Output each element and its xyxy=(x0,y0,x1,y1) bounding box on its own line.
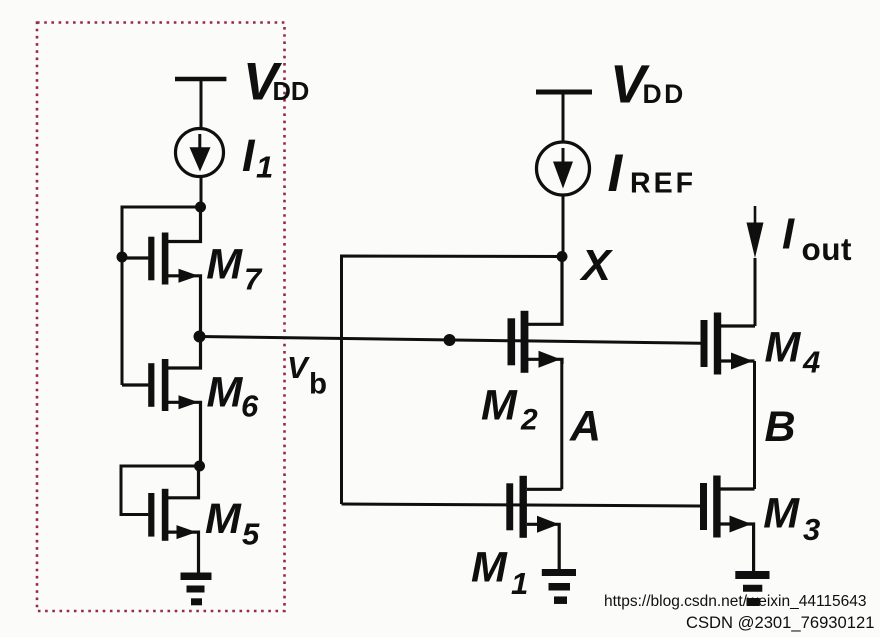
node X xyxy=(557,251,568,262)
label I1 xyxy=(242,130,273,185)
transistor M2 xyxy=(508,257,563,373)
wire Vb bias line to M2/M4 gates xyxy=(200,337,702,344)
svg-text:B: B xyxy=(765,403,796,451)
label IREF xyxy=(608,144,697,203)
VDD supply bar (reference branch) xyxy=(536,90,592,95)
label Vb xyxy=(287,350,327,401)
svg-text:out: out xyxy=(802,231,852,267)
node: I1 / M7 drain / gate junction xyxy=(195,202,206,213)
wire gate loop M7 xyxy=(122,207,201,257)
svg-text:REF: REF xyxy=(630,168,696,200)
ground (bias branch) xyxy=(181,576,212,602)
svg-text:M: M xyxy=(765,324,802,372)
svg-text:5: 5 xyxy=(242,517,260,552)
svg-text:I: I xyxy=(608,144,624,203)
svg-text:CSDN @2301_76930121: CSDN @2301_76930121 xyxy=(686,613,874,632)
svg-text:DD: DD xyxy=(643,79,686,109)
svg-text:https://blog.csdn.net/weixin_4: https://blog.csdn.net/weixin_44115643 xyxy=(604,593,867,610)
svg-text:1: 1 xyxy=(256,150,273,185)
svg-text:V: V xyxy=(287,350,310,385)
svg-text:b: b xyxy=(309,368,327,401)
node: M6 source / M5 drain xyxy=(194,461,205,472)
ground (M3) xyxy=(735,575,769,602)
label M7 xyxy=(206,241,263,297)
wire gate line M1/M3 xyxy=(342,504,701,506)
transistor M3 xyxy=(700,476,755,572)
node: M7 gate junction xyxy=(117,252,128,263)
wire IREF to node X xyxy=(562,195,565,257)
wire X to M1/M3 gate line xyxy=(342,256,563,504)
label M6 xyxy=(207,369,260,424)
label M4 xyxy=(765,324,821,380)
svg-text:M: M xyxy=(205,495,242,543)
svg-text:M: M xyxy=(763,490,800,538)
svg-text:A: A xyxy=(569,403,601,451)
svg-text:2: 2 xyxy=(520,404,538,437)
svg-text:6: 6 xyxy=(241,389,259,424)
svg-text:M: M xyxy=(471,544,508,592)
transistor M5 xyxy=(148,466,198,573)
label I_out xyxy=(782,211,852,268)
label M5 xyxy=(205,495,260,552)
label M3 xyxy=(763,490,820,548)
svg-text:M: M xyxy=(206,241,243,289)
label M2 xyxy=(481,382,538,437)
label VDD (reference) xyxy=(610,55,686,115)
svg-text:3: 3 xyxy=(803,512,820,547)
ground (M1) xyxy=(542,573,576,601)
transistor M7 xyxy=(122,207,201,337)
svg-text:4: 4 xyxy=(802,345,820,380)
svg-text:M: M xyxy=(207,369,244,417)
transistor M1 xyxy=(506,476,562,569)
transistor M6 xyxy=(122,337,201,467)
wire node A xyxy=(560,359,563,489)
node on Vb line xyxy=(444,334,456,346)
svg-text:DD: DD xyxy=(273,78,310,106)
current source IREF xyxy=(537,142,590,195)
svg-text:X: X xyxy=(579,241,614,290)
wire VDD to IREF xyxy=(562,95,565,143)
svg-text:1: 1 xyxy=(511,566,528,601)
svg-text:I: I xyxy=(242,130,256,181)
wire node B xyxy=(753,361,756,489)
svg-text:M: M xyxy=(481,382,518,430)
VDD supply bar (bias branch) xyxy=(175,77,226,82)
node Vb (M7 source / M6 drain) xyxy=(194,331,206,343)
wire VDD to I1 xyxy=(200,81,203,129)
svg-text:I: I xyxy=(782,211,795,259)
dashed bias-circuit box xyxy=(37,23,285,612)
svg-text:7: 7 xyxy=(244,262,263,297)
label M1 xyxy=(471,544,528,602)
I_out arrow xyxy=(747,206,764,326)
wire M7 gate to M6 gate xyxy=(121,257,124,385)
wire gate loop M5 xyxy=(121,466,200,515)
transistor M4 xyxy=(701,313,756,375)
wire I1 to node xyxy=(200,177,203,208)
label VDD (bias) xyxy=(243,53,309,112)
current source I1 xyxy=(176,129,224,177)
